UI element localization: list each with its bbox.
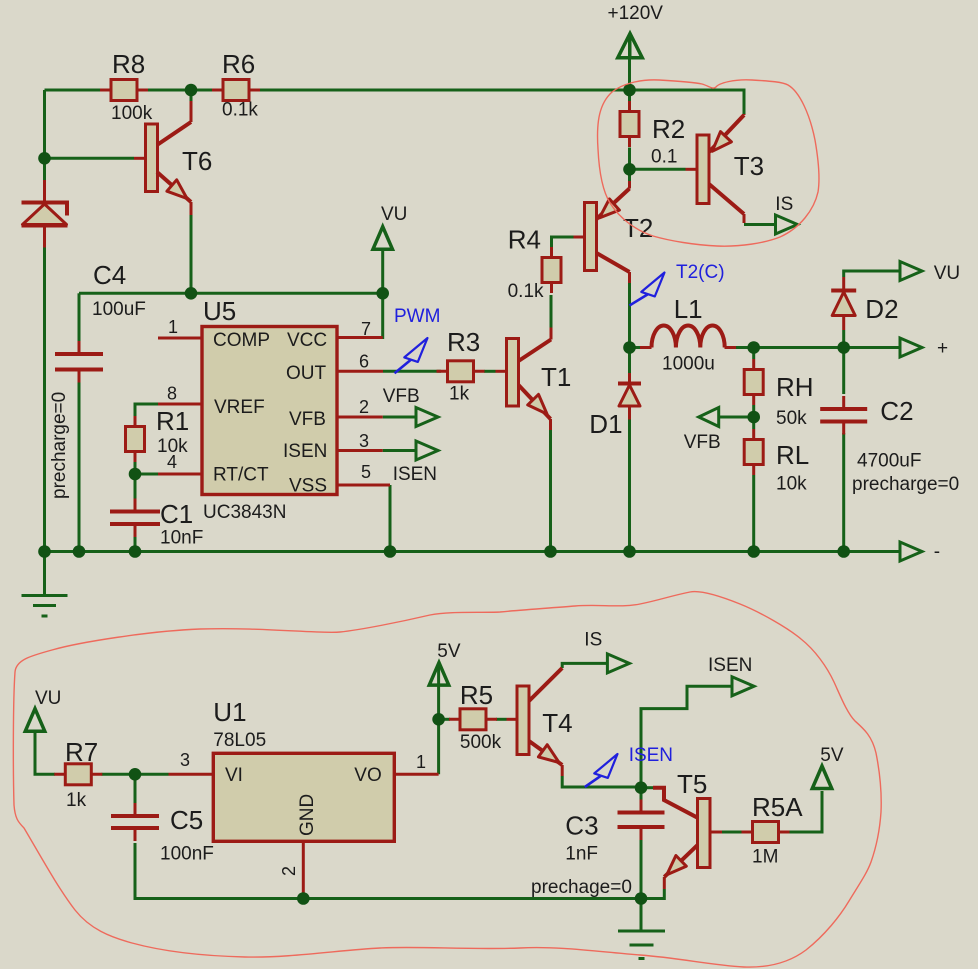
capacitor C3	[618, 800, 665, 841]
wire T5 emitter to gnd node	[641, 889, 664, 899]
wire VFB pin2 to terminal	[383, 416, 416, 419]
junction dots	[185, 84, 198, 97]
wire VREF pin8 to R1	[135, 404, 158, 416]
svg-text:R3: R3	[447, 327, 480, 357]
svg-text:C3: C3	[565, 810, 598, 840]
wire C2 top	[842, 348, 845, 395]
svg-text:1k: 1k	[449, 384, 470, 405]
resistor R8	[100, 80, 148, 101]
inductor L1	[640, 325, 736, 347]
wire R7 to junction to U1 VI	[102, 773, 169, 776]
svg-text:5: 5	[361, 462, 371, 482]
svg-text:1k: 1k	[66, 790, 87, 811]
diode D2	[831, 277, 856, 330]
terminal + output	[900, 338, 922, 357]
ground symbol (bottom)	[618, 931, 665, 959]
U5 pin 3 ISEN	[337, 449, 383, 452]
wire T4 collector to IS	[562, 663, 607, 668]
zener diode D? (left)	[22, 180, 68, 248]
terminal IS (T4)	[607, 654, 629, 673]
IC U1 78L05	[213, 753, 394, 841]
svg-text:6: 6	[359, 352, 369, 372]
wire R1 junction to C1	[134, 474, 137, 499]
wire L1 left lead	[630, 346, 641, 349]
terminal IS (T3)	[776, 215, 798, 234]
wire T5 base to R5A	[722, 831, 743, 834]
wire T2 collector down to L1 node	[628, 283, 631, 348]
capacitor C1	[110, 499, 160, 538]
svg-text:C5: C5	[170, 805, 203, 835]
svg-text:VU: VU	[934, 263, 960, 284]
power arrow 5V (left)	[429, 663, 449, 686]
wire C3 bottom to gnd	[640, 839, 643, 899]
svg-text:VCC: VCC	[287, 330, 327, 351]
svg-text:VO: VO	[354, 765, 381, 786]
wire gnd symbol stem bottom	[640, 899, 643, 932]
svg-text:COMP: COMP	[213, 330, 270, 351]
svg-text:VSS: VSS	[289, 476, 327, 497]
U5 pin 2 VFB	[337, 416, 383, 419]
terminal VFB (left arrow)	[699, 408, 719, 427]
wire R1 to RT/CT junction	[134, 462, 137, 474]
svg-text:R5A: R5A	[752, 792, 803, 822]
wire D2 top to VU	[844, 271, 900, 277]
svg-text:precharge=0: precharge=0	[49, 392, 70, 499]
wire node to T3 base	[630, 168, 686, 171]
svg-text:VFB: VFB	[383, 386, 420, 407]
svg-text:VU: VU	[381, 204, 407, 225]
U5 pin 4 RT/CT	[158, 473, 202, 476]
svg-text:1000u: 1000u	[662, 354, 715, 375]
resistor R7	[54, 764, 102, 785]
ground symbol (left)	[22, 552, 68, 617]
wire C5 bottom to gnd rail	[135, 843, 303, 899]
svg-text:T2: T2	[623, 213, 653, 243]
svg-text:7: 7	[361, 319, 371, 339]
wire L1 right to RH node	[736, 346, 844, 349]
svg-text:R5: R5	[460, 680, 493, 710]
svg-text:10k: 10k	[776, 474, 807, 495]
U5 pin 8 VREF	[158, 403, 202, 406]
resistor R3	[437, 361, 485, 382]
svg-text:T2(C): T2(C)	[676, 262, 725, 283]
wire RH top stub	[752, 348, 755, 360]
svg-text:T3: T3	[734, 151, 764, 181]
svg-text:IS: IS	[584, 630, 602, 651]
svg-text:VREF: VREF	[214, 397, 265, 418]
wire VU bottom stem	[35, 730, 55, 774]
svg-text:R7: R7	[65, 737, 98, 767]
wire R5A to 5V	[789, 791, 823, 832]
resistor RH	[744, 359, 763, 405]
wire C4 lower	[78, 381, 81, 552]
svg-text:4700uF: 4700uF	[857, 451, 921, 472]
svg-text:VI: VI	[225, 765, 243, 786]
terminal - output	[900, 542, 922, 561]
resistor R1	[126, 416, 145, 462]
U1 pin 3 VI	[169, 773, 214, 776]
power arrow +120V	[618, 34, 643, 58]
wire +120V stem	[628, 34, 631, 90]
svg-text:C1: C1	[160, 499, 193, 529]
IC U5 UC3843N	[202, 327, 337, 495]
wire R4 top to T2 base	[552, 237, 574, 251]
svg-text:VFB: VFB	[684, 432, 721, 453]
svg-text:1: 1	[168, 317, 178, 337]
svg-text:ISEN: ISEN	[283, 441, 327, 462]
wire T1 collector riser	[550, 295, 553, 328]
U1 pin 2 GND	[302, 841, 305, 899]
transistor T1	[496, 328, 552, 431]
svg-text:RL: RL	[776, 440, 809, 470]
wire C1 to ground rail	[134, 537, 137, 552]
resistor R6	[212, 80, 260, 101]
resistor R4	[542, 247, 561, 293]
wire ISEN pin3 to terminal	[383, 449, 416, 452]
wire R3 to T1 base	[484, 370, 496, 373]
svg-text:R4: R4	[508, 224, 541, 254]
svg-text:1M: 1M	[752, 847, 778, 868]
capacitor C5	[111, 803, 159, 841]
resistor R5	[449, 709, 497, 730]
svg-text:10k: 10k	[157, 436, 188, 457]
svg-text:U1: U1	[213, 697, 246, 727]
svg-text:0.1: 0.1	[651, 147, 677, 168]
svg-text:R8: R8	[112, 49, 145, 79]
wire top rail left	[45, 89, 101, 92]
resistor RL	[744, 429, 763, 475]
svg-text:precharge=0: precharge=0	[852, 474, 959, 495]
svg-text:R2: R2	[652, 114, 685, 144]
wire R5 to T4 base	[496, 718, 507, 721]
probe ISEN	[585, 754, 618, 787]
wire VCC rail C4 to U5	[79, 292, 383, 295]
wire D2 bottom stub	[842, 330, 845, 348]
svg-text:R1: R1	[156, 406, 189, 436]
wire ISEN node to terminal	[641, 686, 732, 787]
svg-text:GND: GND	[297, 794, 318, 836]
wire T2 emitter to node	[628, 169, 631, 181]
transistor T2 (PNP)	[574, 181, 630, 283]
svg-text:2: 2	[359, 397, 369, 417]
svg-text:UC3843N: UC3843N	[203, 502, 286, 523]
wire out+ rail	[844, 346, 900, 349]
wire R5 left lead	[439, 718, 450, 721]
wire ground rail	[45, 550, 901, 553]
svg-text:+: +	[937, 338, 948, 359]
capacitor C2	[820, 396, 867, 435]
freehand red loop around bottom section	[13, 592, 881, 967]
svg-text:1nF: 1nF	[565, 844, 598, 865]
wire RL bottom to rail	[752, 475, 755, 552]
svg-text:L1: L1	[674, 294, 703, 324]
svg-text:50k: 50k	[776, 408, 807, 429]
svg-text:T4: T4	[542, 708, 572, 738]
U5 pin 7 VCC	[337, 336, 383, 339]
terminal ISEN (bottom)	[732, 677, 754, 696]
svg-text:5V: 5V	[820, 745, 844, 766]
svg-text:prechage=0: prechage=0	[531, 877, 632, 898]
terminal VU (right)	[900, 262, 922, 281]
svg-text:RH: RH	[776, 372, 814, 402]
wire T6 collector stub	[190, 90, 193, 101]
svg-text:+120V: +120V	[608, 3, 664, 24]
svg-text:VU: VU	[35, 688, 61, 709]
wire U1 VO corner up	[437, 663, 440, 774]
power arrow VU (top)	[373, 227, 393, 250]
svg-text:OUT: OUT	[286, 363, 327, 384]
svg-text:C2: C2	[880, 396, 913, 426]
svg-text:1: 1	[416, 752, 426, 772]
svg-text:VFB: VFB	[289, 409, 326, 430]
svg-text:100nF: 100nF	[160, 844, 214, 865]
svg-text:2: 2	[279, 866, 299, 876]
wire R8-R6 segment	[148, 89, 213, 92]
svg-text:5V: 5V	[437, 641, 461, 662]
terminal VFB (pin2)	[416, 408, 438, 427]
wire RT/CT pin4	[135, 473, 158, 476]
wire VU arrow stem	[381, 248, 384, 293]
wire left vertical lower	[43, 248, 46, 552]
wire RH-RL VFB node	[752, 405, 755, 429]
svg-text:8: 8	[167, 384, 177, 404]
svg-text:ISEN: ISEN	[629, 745, 673, 766]
wire D1 lower	[628, 420, 631, 552]
svg-text:T6: T6	[182, 146, 212, 176]
wire T4 emitter to ISEN node	[562, 776, 641, 787]
U1 pin 1 VO	[394, 773, 438, 776]
wire C4 upper stub	[78, 293, 81, 341]
svg-text:100k: 100k	[111, 103, 153, 124]
svg-text:ISEN: ISEN	[708, 655, 752, 676]
transistor T6	[134, 101, 191, 215]
svg-text:-: -	[934, 542, 940, 563]
U5 pin 6 OUT	[337, 370, 383, 373]
svg-text:PWM: PWM	[394, 306, 440, 327]
probe PWM	[395, 338, 428, 373]
resistor R5A	[742, 822, 790, 843]
transistor T3 (PNP)	[686, 114, 745, 223]
U5 pin 1 COMP	[158, 337, 202, 340]
freehand red loop around R2/T3	[598, 80, 819, 246]
power arrow 5V (right)	[812, 766, 832, 789]
svg-text:78L05: 78L05	[213, 730, 266, 751]
svg-text:0.1k: 0.1k	[508, 281, 544, 302]
capacitor C4	[55, 341, 103, 383]
svg-text:R6: R6	[222, 49, 255, 79]
svg-text:D1: D1	[589, 409, 622, 439]
U5 pin 5 VSS	[337, 484, 390, 487]
probe T2(C)	[630, 273, 665, 306]
diode D1	[618, 373, 641, 420]
svg-text:T1: T1	[541, 362, 571, 392]
svg-text:D2: D2	[865, 294, 898, 324]
terminal ISEN (pin3)	[416, 441, 438, 460]
wire C5 top stub	[134, 774, 137, 803]
wire VU top branch	[350, 293, 383, 337]
svg-text:100uF: 100uF	[92, 299, 146, 320]
svg-text:C4: C4	[93, 260, 126, 290]
svg-text:500k: 500k	[460, 732, 502, 753]
wire C3 top stub	[640, 787, 643, 800]
svg-text:U5: U5	[203, 296, 236, 326]
transistor T4	[507, 668, 563, 776]
wire D1 upper stub	[628, 348, 631, 374]
svg-text:3: 3	[180, 750, 190, 770]
transistor T5 (mirrored)	[641, 788, 722, 889]
svg-text:IS: IS	[775, 194, 793, 215]
wire T6 base	[45, 157, 135, 160]
svg-text:0.1k: 0.1k	[222, 100, 258, 121]
power arrow VU (bottom)	[25, 709, 45, 732]
wire R2 bottom to node	[628, 148, 631, 170]
svg-text:RT/CT: RT/CT	[213, 465, 269, 486]
wire R2 top stub	[628, 90, 631, 101]
wire T1 emitter down	[549, 430, 552, 552]
wire left vertical upper	[43, 90, 46, 180]
wire top rail right to T3 emitter corner	[259, 90, 744, 114]
wire VFB left arrow lead	[719, 416, 754, 419]
svg-text:10nF: 10nF	[160, 528, 203, 549]
wire VSS pin5 down to rail	[389, 485, 392, 552]
svg-text:T5: T5	[677, 769, 707, 799]
wire OUT pin6 to R3	[383, 370, 441, 373]
wire T3 collector to IS terminal	[744, 223, 775, 226]
resistor R2	[620, 101, 639, 147]
wire C2 bottom	[842, 433, 845, 552]
svg-text:3: 3	[359, 431, 369, 451]
wire bottom gnd rail right	[303, 897, 641, 900]
wire T6 emitter to VCC rail	[190, 215, 193, 293]
svg-text:ISEN: ISEN	[393, 464, 437, 485]
